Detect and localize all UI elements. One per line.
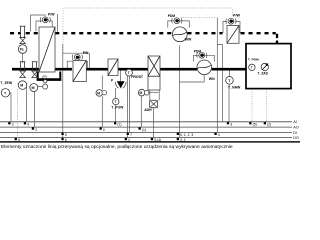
svg-text:0, 1: 0, 1 xyxy=(180,138,186,142)
svg-text:WN: WN xyxy=(209,77,215,81)
damper D1 rails (exhaust) xyxy=(20,26,26,38)
damper D2 rails (supply) xyxy=(20,62,26,71)
terminal 3 AI xyxy=(8,122,10,124)
svg-text:PDM: PDM xyxy=(194,49,202,53)
wire PW heater to DI/DO xyxy=(62,44,64,138)
svg-text:ADH: ADH xyxy=(144,108,152,112)
svg-text:2: 2 xyxy=(35,128,37,132)
fan WN (supply) xyxy=(197,60,212,75)
exhaust duct dashed segment 1 xyxy=(10,32,20,34)
terminal 3 AI right xyxy=(227,122,229,124)
bracket PDM2 left xyxy=(193,55,198,61)
terminal 5 DI xyxy=(61,133,63,135)
svg-text:WW: WW xyxy=(185,38,192,42)
wire T_POW stub xyxy=(115,88,117,98)
pressure circle xyxy=(44,80,47,83)
svg-text:M: M xyxy=(140,91,143,95)
bus DO xyxy=(0,137,292,139)
bus AO xyxy=(0,126,292,128)
wire fan2 link xyxy=(180,75,205,82)
terminal 6 DO xyxy=(61,138,63,140)
supply duct segment 1 xyxy=(12,68,72,71)
pump PW heater xyxy=(72,54,82,60)
svg-text:(2): (2) xyxy=(267,123,271,127)
svg-text:T_POM: T_POM xyxy=(248,58,259,62)
motor M1 xyxy=(18,81,27,90)
svg-text:P/W: P/W xyxy=(48,12,55,16)
svg-text:6: 6 xyxy=(65,138,67,142)
wire PDM2 jog xyxy=(217,45,222,122)
terminal 0 1 2 3 DI xyxy=(177,133,179,135)
supply duct segment 4 xyxy=(160,68,197,71)
exhaust duct dashed segment 3 xyxy=(55,32,172,34)
svg-text:FROST: FROST xyxy=(131,75,144,79)
svg-text:T_ZAD: T_ZAD xyxy=(258,72,269,76)
ADH humidifier xyxy=(150,100,158,107)
damper D2 actuator bowtie xyxy=(20,71,26,78)
terminal 2 DO xyxy=(125,138,127,140)
sensor T1 circle xyxy=(18,45,27,54)
recuperator P/W bracket outer xyxy=(31,15,47,32)
wheel motor circles xyxy=(138,89,145,96)
recuperator (plate heat exchanger) xyxy=(39,27,55,72)
pump P/W coil3 xyxy=(226,18,236,24)
sensor FROST xyxy=(126,69,133,76)
motor M2 xyxy=(30,84,38,92)
svg-text:M: M xyxy=(97,91,100,95)
svg-text:AO: AO xyxy=(293,126,299,130)
svg-text:T: T xyxy=(128,71,130,75)
sensor PDM2 xyxy=(197,52,207,58)
terminal 4 AI xyxy=(24,122,26,124)
svg-text:Elementy oznaczone linią przer: Elementy oznaczone linią przerywaną są o… xyxy=(1,144,233,150)
wire cooler valve to AO xyxy=(101,96,103,127)
bracket PDM2 right xyxy=(205,55,214,61)
fan WW (exhaust) xyxy=(172,27,187,42)
svg-text:(P): (P) xyxy=(42,75,47,79)
terminal 0 AO xyxy=(100,127,102,129)
terminal (1) AO xyxy=(139,127,141,129)
bracket pump PW left xyxy=(67,61,73,70)
terminal 6 DO dashed xyxy=(15,138,17,140)
exhaust duct dashed segment 2 xyxy=(26,32,39,34)
pump P/W recuperator xyxy=(40,17,50,23)
bracket PDM1 right xyxy=(180,21,189,28)
reheater coil3 xyxy=(227,26,239,44)
sensor PDM1 xyxy=(172,18,182,24)
svg-text:4: 4 xyxy=(27,123,29,127)
svg-text:3: 3 xyxy=(12,123,14,127)
svg-text:0: 0 xyxy=(103,128,105,132)
heater coil xyxy=(73,61,86,82)
wire wheel motor to AO xyxy=(140,96,142,127)
svg-text:2: 2 xyxy=(128,138,130,142)
wire T_NAW to AI xyxy=(228,84,230,122)
wire M1 to DO dashed xyxy=(16,89,18,138)
wire T_ZAD dotted xyxy=(266,89,268,122)
terminal (2) AI xyxy=(264,122,266,124)
svg-text:DI: DI xyxy=(293,131,297,135)
wire T_NAW stub xyxy=(229,71,231,77)
link M2 pressure xyxy=(38,86,43,88)
setpoint dial T_ZAD xyxy=(261,63,268,70)
svg-text:(5): (5) xyxy=(253,123,257,127)
wire fans to DI/DO xyxy=(179,45,181,137)
wire cooler valve stub xyxy=(101,76,103,90)
recuperator P/W bracket right xyxy=(48,21,52,32)
wire M1 to AI xyxy=(26,86,28,122)
bracket coil3 left xyxy=(223,21,227,33)
terminal (5) AI xyxy=(249,122,251,124)
exhaust duct drop into room xyxy=(276,34,278,44)
wire FROST to DO xyxy=(127,76,129,138)
bracket coil3 right xyxy=(235,21,240,33)
room unit box xyxy=(246,44,291,89)
svg-text:(1): (1) xyxy=(142,128,146,132)
svg-text:T: T xyxy=(115,100,117,104)
PDM1 signal dotted xyxy=(181,17,218,19)
drain funnel xyxy=(117,81,125,88)
exhaust duct dashed segment 4 xyxy=(187,32,222,34)
cooler coil xyxy=(108,59,118,76)
svg-text:PDM: PDM xyxy=(168,14,176,18)
supply duct segment 3 xyxy=(118,68,148,71)
cooler valve motor pair xyxy=(96,90,103,97)
wire T_ZEW to AI xyxy=(10,93,11,122)
svg-text:AI: AI xyxy=(293,120,297,124)
svg-text:(1): (1) xyxy=(117,123,121,127)
svg-text:0, 1, 2, 3: 0, 1, 2, 3 xyxy=(180,133,193,137)
terminal 7 DI xyxy=(127,133,129,135)
svg-text:T_NAW: T_NAW xyxy=(228,86,241,90)
terminal 0 1 DO xyxy=(177,138,179,140)
bracket PDM1 left xyxy=(168,21,174,28)
svg-text:M: M xyxy=(20,84,23,88)
rotary heat exchanger box xyxy=(148,56,160,90)
wire T_POW to AI xyxy=(115,105,117,122)
recuperator P/W bracket inner xyxy=(36,21,42,32)
bracket pump PW right xyxy=(81,61,87,70)
wire damper1 stub xyxy=(22,53,24,63)
optional control line (dotted) top xyxy=(63,8,233,53)
damper D3 actuator bowtie xyxy=(32,71,38,78)
damper D3 rails (supply) xyxy=(32,62,38,71)
terminal 2 AO xyxy=(32,127,34,129)
damper D1 actuator bowtie xyxy=(20,38,26,44)
wire FROST to DI xyxy=(128,76,130,132)
sensor T_POM xyxy=(249,64,255,70)
wire PDM1 to DI xyxy=(216,18,218,133)
svg-text:M: M xyxy=(32,86,35,90)
condensate tray xyxy=(38,72,61,79)
svg-text:T_ZEW: T_ZEW xyxy=(0,81,13,85)
link wheel motor to riser xyxy=(149,91,159,93)
supply duct segment 2 xyxy=(86,68,108,71)
terminal 4 DI xyxy=(214,133,216,135)
wire pump PW link xyxy=(63,53,90,70)
wire T_POM dotted xyxy=(251,89,253,122)
wire ADH left xyxy=(149,90,151,100)
svg-text:P/W: P/W xyxy=(233,13,240,17)
svg-text:6: 6 xyxy=(18,138,20,142)
svg-text:PW: PW xyxy=(83,51,89,55)
svg-text:4: 4 xyxy=(218,133,220,137)
sensor T_NAW xyxy=(226,77,234,85)
sensor T_POW xyxy=(113,98,119,104)
terminal (1) AI xyxy=(114,122,116,124)
bus AI xyxy=(0,121,292,123)
svg-text:7: 7 xyxy=(130,133,132,137)
svg-text:DO: DO xyxy=(293,136,299,140)
svg-text:T_POW: T_POW xyxy=(111,105,124,109)
terminal 9 (4) DO xyxy=(151,138,153,140)
svg-text:5: 5 xyxy=(65,133,67,137)
bus DI xyxy=(0,131,292,133)
wire M2 to AO xyxy=(34,92,36,128)
supply duct segment 5 xyxy=(212,68,246,71)
power rail xyxy=(0,141,300,143)
exhaust duct dashed segment 5 with drop to room xyxy=(241,32,276,34)
svg-text:T: T xyxy=(251,66,253,70)
wire drain funnel xyxy=(120,70,122,81)
wire ADH to DO xyxy=(153,108,155,138)
svg-text:9,(4): 9,(4) xyxy=(154,138,161,142)
wire ADH right xyxy=(158,90,160,100)
svg-text:3: 3 xyxy=(230,123,232,127)
